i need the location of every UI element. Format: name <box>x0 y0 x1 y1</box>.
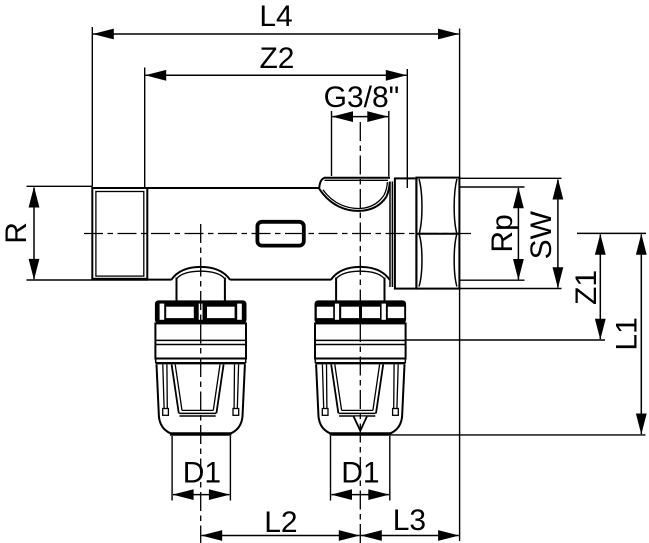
svg-text:SW: SW <box>525 210 558 259</box>
arrow G3/8 left <box>332 111 353 122</box>
ring line b L <box>155 344 246 346</box>
basket outline R <box>316 365 404 434</box>
extension line Rp top <box>460 186 525 188</box>
window bottom c L <box>180 415 216 417</box>
side slot left R <box>322 365 327 409</box>
dimension line SW <box>557 180 559 288</box>
centerline right connector <box>359 122 361 543</box>
top port rim inner <box>325 179 389 181</box>
hex mid line <box>416 233 459 235</box>
window inner sides R <box>335 365 380 411</box>
window bottom a L <box>182 409 213 411</box>
dimension line L2 <box>202 535 360 537</box>
arrow L2 left <box>201 530 222 541</box>
collar black band L <box>155 300 247 323</box>
side slot right R <box>394 365 399 409</box>
step sides L <box>156 358 246 363</box>
neck right wall L <box>224 278 226 301</box>
extension line R top <box>27 185 93 187</box>
body end double line a <box>389 182 391 288</box>
saddle outer R <box>331 267 390 280</box>
ring line a R <box>315 339 406 341</box>
top port right wall outer <box>387 182 390 197</box>
hex lens left top <box>419 179 422 233</box>
side slot left box L <box>163 409 169 416</box>
extension line L3 right lower <box>459 289 461 541</box>
collar rect <box>395 178 417 288</box>
svg-text:R: R <box>0 222 33 244</box>
dimension line G3/8 <box>332 116 388 118</box>
left connector <box>155 267 247 435</box>
extension line L4/L3 right upper <box>459 29 461 178</box>
hex lens left bottom <box>419 235 422 287</box>
depth mark V <box>354 417 367 431</box>
svg-text:G3/8": G3/8" <box>324 81 400 114</box>
arrow L3 right <box>438 530 459 541</box>
window bottom c R <box>339 415 375 417</box>
collar black band R <box>315 300 407 323</box>
body bottom line middle <box>230 279 331 281</box>
svg-text:L2: L2 <box>264 506 297 539</box>
body bottom line left <box>147 279 171 281</box>
neck left wall L <box>176 278 178 301</box>
arrow Z1 down <box>595 319 606 340</box>
svg-text:L4: L4 <box>259 0 292 33</box>
extension line D1 left-b <box>229 436 231 501</box>
extension line D1 right-a <box>330 436 332 501</box>
dimension line Z2 <box>145 74 406 76</box>
arrow L4 right <box>438 29 459 40</box>
side slot left L <box>163 365 168 409</box>
window outer sides R <box>331 365 383 414</box>
extension line L4 left <box>91 27 93 187</box>
hex lens right top <box>454 179 457 233</box>
neck left wall R <box>335 278 337 301</box>
arrow R down <box>29 259 40 280</box>
svg-text:D1: D1 <box>341 457 379 490</box>
arrow L2 right <box>339 530 360 541</box>
dimension line L3 <box>361 535 459 537</box>
window inner sides L <box>175 365 220 411</box>
top port saddle outer <box>319 189 386 211</box>
ring line b R <box>315 344 406 346</box>
arrow R up <box>29 187 40 208</box>
hex lens right bottom <box>454 235 457 287</box>
body top line <box>147 187 319 189</box>
arrow Z2 right <box>386 70 407 81</box>
top port saddle inner <box>323 190 384 209</box>
arrow G3/8 right <box>367 111 388 122</box>
extension line R bottom <box>27 279 149 281</box>
dimension line Rp <box>517 188 519 280</box>
extension line D1 right-b <box>389 436 391 501</box>
arrow D1 right-l <box>331 489 352 500</box>
saddle inner L <box>177 271 225 279</box>
male thread inner rect <box>96 192 144 277</box>
svg-text:L3: L3 <box>393 504 426 537</box>
arrow L3 left <box>361 530 382 541</box>
basket ledge L <box>156 362 246 364</box>
arrow L1 up <box>636 234 647 255</box>
centerlines <box>84 122 471 543</box>
collar windows R <box>317 304 404 320</box>
saddle inner R <box>336 271 384 279</box>
arrow L1 down <box>636 414 647 435</box>
male thread outer rect <box>92 188 147 279</box>
ring L <box>155 323 246 358</box>
basket bottom line R <box>330 434 391 436</box>
ring R <box>315 323 406 358</box>
extension line Z2 left <box>144 68 146 189</box>
dimension line R <box>33 188 35 280</box>
arrow Z2 left <box>145 70 166 81</box>
dimension line D1 left <box>173 494 230 496</box>
hex rect <box>416 178 459 289</box>
top port left corner <box>319 178 324 189</box>
dimension line D1 right <box>331 494 389 496</box>
arrow D1 left-r <box>209 489 230 500</box>
collar windows L <box>160 304 242 320</box>
window bottom b R <box>339 412 376 414</box>
arrow SW up <box>553 179 564 200</box>
svg-text:L1: L1 <box>611 317 644 350</box>
arrow L4 left <box>93 29 114 40</box>
side slot left box R <box>322 409 328 416</box>
dimension line L1 <box>640 235 642 435</box>
arrow Rp down <box>513 259 524 280</box>
svg-text:D1: D1 <box>183 457 221 490</box>
dimension line Z1 <box>599 235 601 340</box>
arrow D1 right-r <box>368 489 389 500</box>
top port right wall inner <box>384 182 387 195</box>
ring line a L <box>155 339 246 341</box>
arrow D1 left-l <box>173 489 194 500</box>
extension line Rp bottom <box>460 279 525 281</box>
window bottom b L <box>179 412 216 414</box>
basket outline L <box>157 365 245 434</box>
extension line G3/8 right <box>388 111 390 177</box>
top port rim outer <box>324 177 390 179</box>
side slot right box L <box>233 409 239 416</box>
extension line Z2 right <box>406 69 408 188</box>
extension line L1 bottom <box>390 434 646 436</box>
centerline solid right part <box>577 232 646 234</box>
arrow Z1 up <box>595 234 606 255</box>
saddle outer L <box>171 267 230 280</box>
extension line D1 left-a <box>171 436 173 501</box>
basket bottom line L <box>170 434 231 436</box>
svg-text:Z2: Z2 <box>259 42 294 75</box>
svg-text:Rp: Rp <box>486 214 519 252</box>
side slot right box R <box>393 409 399 416</box>
step sides R <box>315 358 405 363</box>
window bottom a R <box>342 409 373 411</box>
extension line SW bottom <box>460 288 562 290</box>
svg-text:Z1: Z1 <box>570 270 603 305</box>
dimension line L4 <box>93 33 459 35</box>
extension line G3/8 left <box>331 111 333 176</box>
side slot right L <box>234 365 239 409</box>
basket ledge R <box>315 362 405 364</box>
extension line Z1 bottom <box>406 339 605 341</box>
arrow Rp up <box>513 187 524 208</box>
neck right wall R <box>384 278 386 301</box>
window outer sides L <box>172 365 224 414</box>
extension line SW top <box>460 177 562 179</box>
centerline horizontal <box>84 233 471 235</box>
body end double line b <box>391 182 393 288</box>
centerline left connector <box>200 224 202 543</box>
label plate on body <box>257 222 303 246</box>
arrow SW down <box>553 267 564 288</box>
